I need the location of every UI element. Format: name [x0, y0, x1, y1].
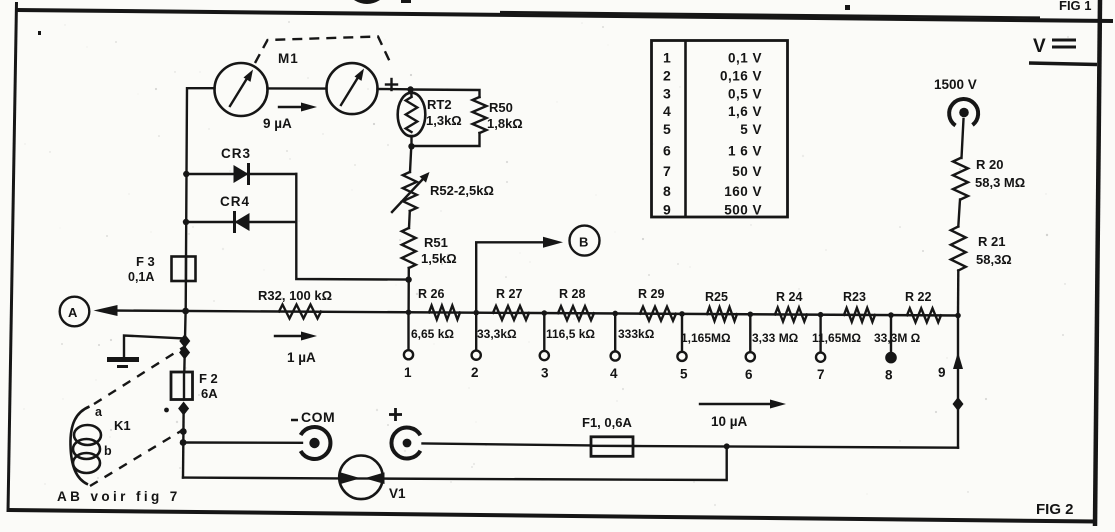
- svg-text:1,5kΩ: 1,5kΩ: [421, 251, 457, 266]
- wire: left vertical below bus: [184, 311, 185, 372]
- svg-text:R52-2,5kΩ: R52-2,5kΩ: [430, 183, 494, 198]
- resistor R22: [907, 308, 941, 322]
- terminal 8: [885, 315, 896, 383]
- label +: [389, 408, 402, 421]
- resistor R50: [473, 97, 487, 133]
- range selector table: [652, 41, 788, 218]
- svg-text:7: 7: [817, 367, 825, 382]
- label R21 58,3: [976, 234, 1012, 267]
- plug diamonds above fuse F2: [179, 334, 190, 360]
- svg-text:333kΩ: 333kΩ: [618, 327, 655, 341]
- meter M1 movement (left element): [215, 63, 268, 116]
- node: bus junction 8: [888, 312, 894, 318]
- terminal 6: [745, 314, 755, 382]
- label V1: [389, 486, 406, 501]
- node: COM wire junction: [180, 439, 187, 446]
- wire: main divider bus A to terminal 9: [110, 311, 958, 316]
- fuse F1: [591, 437, 633, 457]
- resistor R27: [493, 306, 529, 320]
- svg-text:3: 3: [541, 366, 549, 381]
- svg-text:FIG 2: FIG 2: [1036, 501, 1074, 518]
- fuse F2: [171, 372, 193, 400]
- svg-text:1: 1: [404, 365, 412, 380]
- wire: F2 down to COM/V1 line: [182, 413, 185, 478]
- svg-text:1,165MΩ: 1,165MΩ: [681, 331, 731, 345]
- plug diamond on terminal 9 riser: [953, 397, 964, 411]
- wire: meter M1 to meter M1b: [268, 87, 327, 90]
- wire: diode block right side down to R51 bottom: [296, 174, 408, 280]
- svg-text:COM: COM: [301, 409, 335, 425]
- node B terminal: [570, 226, 600, 256]
- wire: terminal 9 riser from F1 line: [957, 316, 959, 448]
- wire: top of R50 branch: [411, 90, 480, 98]
- arrow to node B: [543, 237, 563, 248]
- diode CR3: [186, 165, 296, 184]
- svg-text:5: 5: [680, 366, 688, 381]
- svg-text:RT2: RT2: [427, 97, 452, 112]
- wire: meter M1b to RT2 node: [378, 88, 411, 91]
- svg-text:116,5 kΩ: 116,5 kΩ: [546, 327, 595, 341]
- stray ink from figure above: [38, 0, 850, 35]
- wire: R51 bottom to bus: [407, 268, 410, 312]
- label F3 0,1A: [128, 254, 155, 284]
- frame: bottom border: [8, 510, 1096, 522]
- wire: RT2/R50 bottom join: [412, 133, 480, 146]
- resistor R20: [953, 158, 968, 200]
- svg-text:58,3Ω: 58,3Ω: [976, 252, 1012, 267]
- terminal 2: [471, 313, 481, 381]
- svg-text:R 22: R 22: [905, 290, 931, 304]
- terminal 1: [404, 312, 413, 380]
- svg-text:R51: R51: [424, 235, 448, 250]
- node: R51/bus branch junction: [405, 276, 411, 282]
- svg-text:6A: 6A: [201, 386, 218, 401]
- wire: + terminal to F1: [423, 444, 592, 446]
- label F2 6A: [199, 371, 218, 401]
- potentiometer R52: [392, 172, 430, 212]
- frame: right border: [1095, 0, 1100, 526]
- resistor R24: [775, 308, 807, 322]
- svg-text:9: 9: [663, 202, 671, 218]
- node: bus junction 7: [818, 312, 824, 318]
- node: bus junction 1: [406, 309, 412, 315]
- svg-text:6: 6: [745, 367, 753, 382]
- terminal 7: [816, 315, 825, 383]
- svg-text:33,3M Ω: 33,3M Ω: [874, 331, 921, 345]
- svg-text:R 28: R 28: [559, 287, 585, 301]
- node A terminal: [60, 297, 90, 327]
- svg-text:R 26: R 26: [418, 287, 444, 301]
- svg-text:R50: R50: [489, 100, 513, 115]
- label R29 value: [618, 287, 664, 341]
- svg-text:CR3: CR3: [221, 146, 251, 161]
- svg-text:9: 9: [938, 365, 946, 380]
- label R20 58,3 M: [975, 157, 1025, 190]
- svg-text:V1: V1: [389, 486, 406, 501]
- node: bus junction 2: [473, 310, 479, 316]
- frame: left border: [8, 2, 17, 512]
- svg-text:1,6 V: 1,6 V: [728, 104, 762, 119]
- svg-text:F 3: F 3: [136, 254, 155, 269]
- arrow to node A: [94, 305, 118, 316]
- svg-text:F1, 0,6A: F1, 0,6A: [582, 415, 632, 430]
- FIG 1 caption (cut off at top): [1059, 0, 1092, 13]
- svg-text:10 µA: 10 µA: [711, 414, 748, 429]
- node: bus junction 6: [748, 311, 754, 317]
- resistor R29: [640, 307, 676, 321]
- svg-text:R23: R23: [843, 290, 866, 304]
- dashed link K1 upper: [94, 347, 184, 404]
- node: CR3 left junction: [183, 171, 189, 177]
- label R28 value: [546, 287, 595, 341]
- label CR3: [221, 146, 251, 161]
- relay K1 coil: [70, 407, 101, 485]
- resistor R25: [707, 307, 737, 321]
- label K1 with contacts a,b: [95, 405, 131, 458]
- svg-text:4: 4: [610, 366, 618, 381]
- label R26 value: [411, 287, 454, 341]
- svg-text:500 V: 500 V: [724, 203, 762, 218]
- svg-text:R 27: R 27: [496, 287, 522, 301]
- svg-text:6,65 kΩ: 6,65 kΩ: [411, 327, 454, 341]
- svg-text:R 20: R 20: [976, 157, 1003, 172]
- svg-text:0,5 V: 0,5 V: [728, 87, 762, 102]
- wire: 1500V terminal to R20: [962, 119, 964, 158]
- svg-text:1 µA: 1 µA: [287, 350, 316, 365]
- dashed link K1 lower: [90, 431, 181, 486]
- label AB voir fig 7: [57, 489, 181, 504]
- svg-text:R32, 100 kΩ: R32, 100 kΩ: [258, 288, 332, 303]
- svg-text:58,3 MΩ: 58,3 MΩ: [975, 175, 1025, 190]
- svg-text:CR4: CR4: [220, 194, 250, 209]
- svg-text:K1: K1: [114, 418, 131, 433]
- terminal 5: [677, 314, 688, 382]
- node: RT2/R50 top junction: [407, 86, 413, 92]
- node: CR4 left junction: [183, 219, 189, 225]
- svg-text:0,1 V: 0,1 V: [728, 51, 762, 66]
- terminal 4: [610, 313, 620, 381]
- label -COM: [291, 409, 335, 425]
- svg-text:2: 2: [663, 68, 671, 84]
- svg-text:F 2: F 2: [199, 371, 218, 386]
- 10 uA current arrow: [700, 400, 786, 430]
- svg-text:A: A: [68, 305, 78, 320]
- resistor R26: [429, 306, 460, 320]
- wire: to COM terminal: [183, 441, 302, 444]
- thermistor RT2: [398, 90, 426, 137]
- svg-text:8: 8: [885, 368, 893, 383]
- node: bus right corner junction: [955, 313, 961, 319]
- svg-text:AB voir fig 7: AB voir fig 7: [57, 489, 181, 504]
- svg-text:5: 5: [663, 121, 671, 137]
- wire: left vertical to meter M1: [186, 88, 215, 311]
- stray dot near K1 dash: [164, 408, 169, 413]
- label R22 value: [874, 290, 931, 345]
- node: step junction: [724, 443, 730, 449]
- dashed mechanical coupling bracket over M1: [255, 37, 390, 64]
- label R51 1,5k: [421, 235, 457, 266]
- svg-text:3,33 MΩ: 3,33 MΩ: [752, 331, 799, 345]
- ground: [107, 360, 139, 367]
- svg-text:2: 2: [471, 365, 479, 380]
- svg-text:1 6 V: 1 6 V: [728, 144, 762, 159]
- resistor R21: [951, 227, 966, 271]
- plug diamond below fuse F2: [178, 402, 189, 416]
- svg-text:7: 7: [663, 163, 671, 179]
- svg-text:R25: R25: [705, 290, 728, 304]
- diode CR4: [186, 213, 296, 232]
- wire: V1 line step up: [183, 446, 727, 480]
- wire: R52 to R51: [408, 211, 411, 228]
- label 1500 V: [934, 77, 977, 92]
- + terminal: [391, 428, 420, 459]
- label CR4: [220, 194, 250, 209]
- svg-text:0,1A: 0,1A: [128, 270, 154, 284]
- node: bus junction 5: [679, 311, 685, 317]
- 9 uA current arrow: [263, 103, 317, 132]
- svg-text:160 V: 160 V: [724, 184, 762, 199]
- resistor R23: [844, 308, 875, 322]
- COM terminal: [301, 427, 331, 459]
- resistor R51: [402, 228, 416, 268]
- svg-text:b: b: [104, 444, 112, 458]
- arrow plug at terminal 9: [953, 352, 963, 369]
- svg-text:1,8kΩ: 1,8kΩ: [487, 116, 523, 131]
- label M1: [278, 51, 299, 66]
- 1 uA current arrow: [275, 332, 317, 366]
- svg-text:5 V: 5 V: [740, 122, 762, 137]
- svg-text:33,3kΩ: 33,3kΩ: [477, 327, 517, 341]
- terminal 3: [540, 313, 549, 381]
- svg-text:R 29: R 29: [638, 287, 664, 301]
- svg-text:M1: M1: [278, 51, 299, 66]
- svg-text:1,3kΩ: 1,3kΩ: [426, 113, 462, 128]
- wire: R20 to R21: [958, 200, 960, 227]
- wire: R21 to bus corner: [957, 271, 960, 316]
- svg-text:50 V: 50 V: [732, 164, 762, 179]
- wire: ground branch: [124, 336, 185, 358]
- svg-text:6: 6: [663, 143, 671, 159]
- wire: down to R52: [410, 146, 411, 172]
- label R25 value: [681, 290, 731, 345]
- svg-text:1500 V: 1500 V: [934, 77, 977, 92]
- svg-text:9 µA: 9 µA: [263, 116, 292, 131]
- frame: FIG1 bottom / FIG2 top border line: [16, 10, 1113, 21]
- label R52-2,5k: [430, 183, 494, 198]
- node: RT2/R50 bottom junction: [408, 143, 414, 149]
- svg-text:R 24: R 24: [776, 290, 802, 304]
- meter M1b movement (right element): [327, 63, 378, 114]
- label RT2 1,3k: [426, 97, 462, 128]
- label R24 value: [752, 290, 802, 345]
- svg-text:a: a: [95, 405, 103, 419]
- label R32, 100k: [258, 288, 332, 303]
- node: bus junction 4: [612, 311, 618, 317]
- label F1, 0,6A: [582, 415, 632, 430]
- svg-text:1: 1: [663, 50, 671, 66]
- fuse F3: [172, 257, 196, 282]
- label R27 value: [477, 287, 522, 341]
- node: bus / F3 vertical junction: [182, 308, 189, 315]
- svg-text:8: 8: [663, 183, 671, 199]
- + polarity mark at meter output: [386, 79, 397, 90]
- surge arrester V1: [339, 456, 384, 500]
- V= (DC volts) range heading: [1029, 36, 1097, 65]
- resistor R28: [558, 306, 594, 320]
- svg-text:0,16 V: 0,16 V: [720, 69, 762, 84]
- svg-text:R 21: R 21: [978, 234, 1005, 249]
- svg-text:B: B: [579, 235, 588, 250]
- label R50 1,8k: [487, 100, 523, 131]
- svg-text:V: V: [1033, 36, 1046, 57]
- node: bus junction 3: [542, 310, 548, 316]
- wire: F1 to terminal 9 riser: [633, 446, 958, 448]
- wire: terminal 2 riser to node B: [476, 242, 544, 312]
- svg-text:4: 4: [663, 103, 671, 119]
- 1500 V terminal: [949, 99, 978, 125]
- svg-text:3: 3: [663, 86, 671, 102]
- node: dashed link junction: [180, 428, 187, 435]
- svg-text:FIG 1: FIG 1: [1059, 0, 1092, 13]
- FIG 2 caption: [1036, 501, 1074, 518]
- resistor R32: [279, 305, 321, 319]
- label R23 value: [812, 290, 866, 345]
- label terminal 9: [938, 365, 946, 380]
